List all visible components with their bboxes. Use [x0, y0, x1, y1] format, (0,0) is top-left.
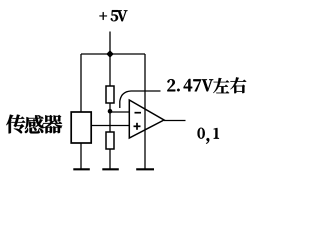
wire R2 to ground	[109, 149, 111, 169]
value label 2.47V左右	[167, 77, 246, 93]
resistor R2	[106, 132, 114, 149]
resistor R1	[106, 86, 114, 103]
wire node A to R2	[109, 112, 111, 132]
sensor body	[71, 112, 91, 143]
op-amp inverting input marker	[135, 112, 142, 114]
wire sensor output to non-inverting input	[91, 125, 129, 127]
resistor R1 top lead	[109, 54, 111, 86]
wire R1 to node A	[109, 103, 111, 112]
wire output	[164, 120, 186, 122]
node A junction dot	[108, 109, 113, 114]
ground bar right	[136, 168, 154, 170]
net label +5V	[100, 10, 128, 21]
sensor label 传感器	[6, 115, 62, 134]
wire +5V stem	[109, 32, 111, 55]
junction dot on +5V rail	[106, 50, 113, 57]
wire supply drop through op-amp	[144, 54, 146, 169]
wire top rail	[81, 53, 145, 55]
callout leader 2.47V	[120, 91, 161, 108]
wire sensor to ground	[80, 143, 82, 169]
ground bar under R2	[102, 168, 119, 170]
wire node A to inverting input	[110, 111, 129, 113]
wire left drop to sensor	[80, 54, 82, 112]
op-amp U1	[129, 100, 164, 138]
op-amp non-inverting input marker	[134, 123, 141, 130]
output label 0,1	[198, 128, 219, 144]
ground bar under sensor	[73, 168, 90, 170]
